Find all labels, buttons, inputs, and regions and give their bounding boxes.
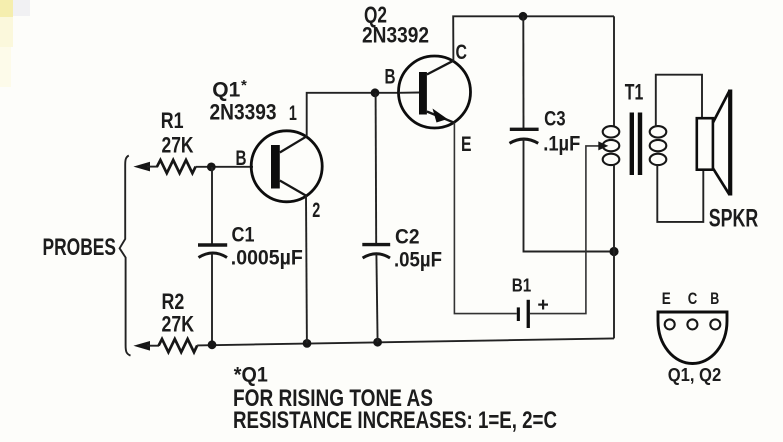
node C2 top junction bbox=[371, 88, 380, 97]
wire Q2 emitter down to battery bbox=[454, 123, 516, 314]
svg-text:R2: R2 bbox=[162, 289, 185, 314]
svg-text:C2: C2 bbox=[395, 226, 420, 249]
wire Q2 collector to top rail bbox=[453, 16, 614, 60]
transistor Q1 bbox=[251, 131, 322, 202]
pin C circle bbox=[687, 319, 697, 329]
tap arrow into T1 primary bbox=[598, 141, 608, 150]
node Q1 emitter rail junction bbox=[303, 339, 312, 348]
transformer T1 bbox=[603, 16, 704, 251]
capacitor C1 bbox=[198, 245, 227, 258]
wire C2 to rail bbox=[376, 254, 377, 342]
node C1 rail junction bbox=[208, 340, 217, 349]
primary bottom lead bbox=[613, 165, 615, 252]
svg-text:C3: C3 bbox=[544, 107, 566, 130]
svg-text:2N3392: 2N3392 bbox=[362, 23, 429, 48]
node main junction B1/C3/T1 bbox=[609, 247, 618, 256]
svg-text:.0005µF: .0005µF bbox=[231, 247, 303, 270]
wire C1 vertical bbox=[211, 167, 213, 245]
svg-text:C: C bbox=[688, 289, 698, 308]
svg-text:27K: 27K bbox=[162, 312, 195, 337]
secondary bottom lead bbox=[657, 165, 703, 222]
speaker SPKR bbox=[697, 90, 730, 196]
transistor Q2 bbox=[399, 56, 471, 128]
svg-text:*Q1: *Q1 bbox=[234, 364, 268, 387]
wire battery positive to transformer tap bbox=[530, 146, 602, 314]
svg-text:E: E bbox=[461, 133, 472, 156]
secondary winding bbox=[650, 126, 667, 165]
svg-text:B: B bbox=[236, 147, 247, 170]
wire junction down to ground rail bbox=[613, 252, 615, 339]
svg-text:B: B bbox=[385, 65, 396, 88]
svg-text:SPKR: SPKR bbox=[709, 204, 759, 232]
secondary top lead bbox=[656, 75, 702, 127]
svg-text:.05µF: .05µF bbox=[394, 249, 442, 272]
wire Q1 collector up and right to Q2 base bbox=[307, 93, 399, 137]
node C3 top junction bbox=[519, 12, 528, 21]
svg-text:T1: T1 bbox=[625, 80, 644, 105]
svg-text:C: C bbox=[456, 40, 468, 64]
probes brace bbox=[120, 156, 131, 356]
scan tint top-left corner bbox=[0, 0, 13, 17]
wire ground rail bbox=[197, 338, 614, 345]
pin E circle bbox=[665, 319, 675, 329]
svg-text:.1µF: .1µF bbox=[543, 133, 580, 156]
node C2 rail junction bbox=[373, 338, 382, 347]
wire Q1 emitter down to rail bbox=[305, 196, 308, 344]
svg-text:1: 1 bbox=[289, 102, 297, 125]
node Q1 base junction bbox=[207, 163, 216, 172]
svg-text:PROBES: PROBES bbox=[43, 234, 117, 261]
svg-text:B: B bbox=[710, 289, 719, 308]
svg-text:2: 2 bbox=[312, 199, 320, 222]
svg-text:B1: B1 bbox=[512, 276, 532, 296]
pin B circle bbox=[710, 319, 720, 329]
probe arrow bottom bbox=[133, 341, 159, 351]
primary top lead bbox=[613, 16, 615, 126]
resistor R1 bbox=[157, 160, 253, 173]
wire C2 vertical bbox=[375, 93, 378, 245]
primary winding bbox=[603, 126, 620, 165]
svg-text:*: * bbox=[241, 77, 247, 94]
battery B1 bbox=[517, 300, 530, 328]
wire C3 vertical bbox=[522, 16, 524, 129]
svg-text:E: E bbox=[662, 289, 671, 308]
wire Q2 base lead bbox=[399, 92, 419, 94]
wire C3 down and right to junction bbox=[524, 139, 615, 252]
probe arrow top bbox=[133, 162, 158, 172]
svg-text:Q1, Q2: Q1, Q2 bbox=[668, 365, 722, 385]
svg-text:R1: R1 bbox=[161, 108, 184, 133]
svg-text:Q1: Q1 bbox=[212, 79, 240, 102]
svg-text:27K: 27K bbox=[162, 132, 194, 157]
core bbox=[630, 113, 634, 176]
pinout case outline Q1 Q2 bbox=[658, 312, 727, 364]
svg-text:2N3393: 2N3393 bbox=[210, 99, 277, 124]
svg-text:C1: C1 bbox=[232, 224, 255, 247]
label plus bbox=[538, 300, 548, 310]
svg-text:RESISTANCE INCREASES: 1=E, 2=C: RESISTANCE INCREASES: 1=E, 2=C bbox=[233, 407, 557, 434]
capacitor C2 bbox=[362, 245, 390, 258]
resistor R2 bbox=[159, 339, 198, 352]
wire C1 to rail bbox=[211, 254, 213, 345]
capacitor C3 bbox=[510, 129, 539, 143]
